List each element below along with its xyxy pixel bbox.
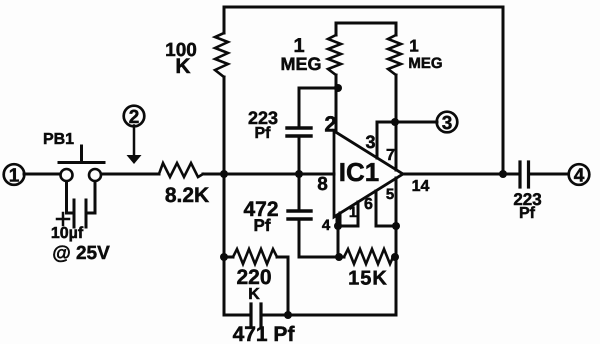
svg-text:15K: 15K (348, 268, 388, 290)
svg-text:14: 14 (412, 178, 430, 195)
svg-text:1: 1 (9, 166, 20, 187)
svg-text:4: 4 (322, 217, 331, 234)
svg-text:MEG: MEG (280, 54, 321, 74)
svg-text:2: 2 (324, 112, 336, 137)
svg-text:471 Pf: 471 Pf (233, 323, 296, 344)
svg-text:1: 1 (409, 37, 418, 56)
svg-text:1: 1 (349, 204, 357, 221)
svg-text:K: K (248, 286, 260, 303)
svg-text:4: 4 (574, 166, 585, 187)
svg-text:8.2K: 8.2K (165, 184, 209, 207)
svg-text:7: 7 (386, 147, 395, 164)
svg-text:Pf: Pf (255, 125, 272, 142)
svg-text:8: 8 (317, 174, 328, 195)
svg-text:@ 25V: @ 25V (52, 243, 110, 264)
svg-text:10µf: 10µf (51, 225, 84, 242)
svg-text:3: 3 (365, 132, 375, 152)
svg-text:5: 5 (386, 186, 394, 203)
svg-text:MEG: MEG (408, 55, 442, 72)
svg-text:IC1: IC1 (339, 157, 379, 187)
svg-text:K: K (175, 55, 190, 78)
svg-text:PB1: PB1 (43, 131, 74, 148)
svg-text:2: 2 (129, 107, 140, 128)
svg-text:6: 6 (364, 196, 373, 213)
svg-text:3: 3 (442, 113, 453, 134)
svg-text:Pf: Pf (254, 216, 271, 235)
svg-text:Pf: Pf (519, 205, 536, 222)
